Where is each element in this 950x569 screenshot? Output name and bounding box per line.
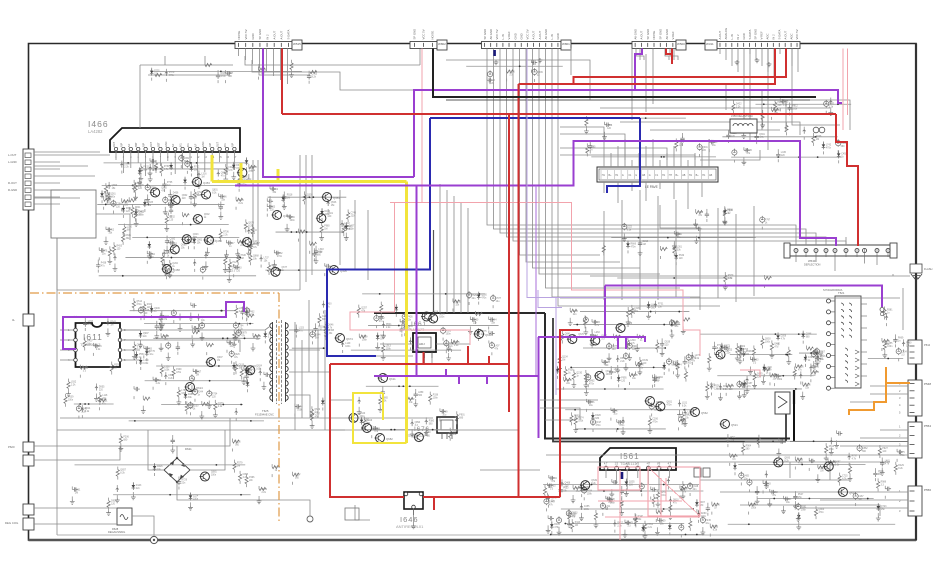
svg-text:P255: P255 — [154, 71, 160, 73]
transistor Q674 — [335, 334, 354, 343]
svg-text:L146: L146 — [290, 217, 296, 219]
svg-text:VCC 5V: VCC 5V — [795, 29, 799, 39]
svg-text:L261: L261 — [677, 246, 683, 248]
svg-text:P639: P639 — [68, 397, 74, 399]
svg-text:Q693: Q693 — [784, 457, 790, 459]
svg-text:L794: L794 — [238, 326, 244, 328]
wire red box top — [330, 363, 509, 365]
svg-text:Q561: Q561 — [656, 400, 663, 404]
svg-text:Q128: Q128 — [693, 486, 699, 488]
svg-text:P463: P463 — [710, 384, 716, 386]
svg-text:D955: D955 — [99, 387, 105, 389]
svg-text:R183: R183 — [446, 331, 452, 333]
wire red staircase to deflection — [836, 114, 858, 246]
svg-text:Q506: Q506 — [878, 471, 884, 473]
svg-text:Q257: Q257 — [361, 308, 367, 310]
svg-text:470n: 470n — [619, 425, 625, 427]
connector P548 (CRT) — [899, 380, 931, 416]
svg-text:VCC 5V: VCC 5V — [422, 29, 426, 39]
svg-text:Q692: Q692 — [248, 168, 254, 170]
svg-text:L153: L153 — [88, 321, 94, 323]
svg-text:100k: 100k — [578, 421, 584, 423]
svg-text:D614: D614 — [85, 408, 91, 410]
svg-text:P237: P237 — [777, 376, 783, 378]
node east-west driver cluster — [556, 301, 701, 396]
svg-text:A-OUT: A-OUT — [538, 31, 542, 40]
svg-text:R-OUT: R-OUT — [8, 181, 17, 185]
svg-text:1M: 1M — [110, 324, 113, 326]
svg-text:Q809: Q809 — [537, 72, 543, 74]
connector P401 audio out — [8, 149, 34, 210]
svg-text:Q681: Q681 — [373, 427, 380, 431]
svg-text:R769: R769 — [164, 166, 170, 168]
svg-text:C206: C206 — [509, 72, 515, 74]
svg-text:R793: R793 — [743, 349, 749, 351]
svg-text:W540: W540 — [808, 259, 816, 263]
svg-text:C167: C167 — [858, 496, 864, 498]
svg-text:L533: L533 — [766, 484, 772, 486]
svg-text:Q482: Q482 — [589, 381, 595, 383]
svg-text:AB: AB — [709, 174, 713, 177]
svg-text:1M: 1M — [194, 197, 197, 199]
svg-text:Q635: Q635 — [161, 188, 167, 190]
svg-text:100n: 100n — [211, 475, 217, 477]
svg-text:SP GND: SP GND — [646, 29, 650, 40]
svg-text:AB: AB — [642, 174, 646, 177]
svg-text:Q882: Q882 — [277, 253, 283, 255]
wire purple I611 net — [63, 302, 244, 349]
svg-text:R734: R734 — [212, 394, 218, 396]
svg-text:A-OUT: A-OUT — [272, 31, 276, 40]
svg-text:Q903: Q903 — [765, 339, 771, 341]
node video driver parts — [565, 399, 697, 435]
svg-text:C294: C294 — [116, 204, 122, 206]
svg-text:R455: R455 — [117, 245, 123, 247]
svg-text:Q610: Q610 — [606, 371, 612, 373]
svg-text:C437: C437 — [349, 226, 355, 228]
svg-text:Q520: Q520 — [481, 295, 487, 297]
svg-text:C862: C862 — [862, 448, 868, 450]
svg-text:Q689: Q689 — [627, 323, 633, 325]
svg-text:Q246: Q246 — [154, 308, 160, 310]
svg-text:L174: L174 — [297, 407, 303, 409]
svg-text:I466: I466 — [88, 119, 109, 129]
svg-text:D159: D159 — [665, 341, 671, 343]
connector W515 (audio/video in) — [235, 29, 302, 50]
svg-text:FS1394AE CNC: FS1394AE CNC — [255, 413, 274, 417]
svg-text:470n: 470n — [666, 404, 672, 406]
svg-text:Q675: Q675 — [144, 310, 150, 312]
svg-text:P274: P274 — [578, 418, 584, 420]
svg-text:L445: L445 — [781, 152, 787, 154]
svg-text:Q602: Q602 — [204, 214, 210, 216]
svg-text:C752: C752 — [109, 230, 115, 232]
svg-text:Q660: Q660 — [425, 432, 431, 434]
node left edge parts — [64, 316, 121, 419]
op-amp U I466 LA4282 — [110, 128, 240, 159]
svg-text:D638: D638 — [164, 336, 170, 338]
svg-text:Q457: Q457 — [253, 241, 260, 245]
svg-text:Q601: Q601 — [212, 190, 218, 192]
wire purple long top bus — [413, 90, 842, 103]
svg-text:ANTIREGUL01: ANTIREGUL01 — [396, 524, 424, 529]
svg-text:100k: 100k — [751, 508, 757, 510]
connector P624 degauss coil — [5, 504, 34, 530]
svg-text:100k: 100k — [765, 342, 771, 344]
svg-text:Q473: Q473 — [218, 403, 224, 405]
wire red stub I646 — [433, 497, 435, 510]
wire yellow sound supply vertical from I466 — [211, 155, 214, 182]
svg-text:IN 2: IN 2 — [265, 34, 269, 40]
wire lavender Q667 drop — [555, 298, 557, 395]
svg-text:C757: C757 — [315, 414, 321, 416]
svg-text:L840: L840 — [630, 340, 636, 342]
wire purple east stubs — [618, 337, 626, 349]
svg-text:D621: D621 — [185, 447, 192, 451]
svg-text:470n: 470n — [481, 298, 487, 300]
svg-text:L287: L287 — [613, 411, 619, 413]
svg-text:Q688: Q688 — [181, 244, 187, 246]
svg-text:Q451: Q451 — [333, 196, 340, 200]
svg-text:R936: R936 — [813, 367, 819, 369]
bridge rectifier D621 — [164, 447, 192, 483]
wire red W311 drop A — [574, 49, 787, 85]
svg-text:P647: P647 — [798, 494, 804, 496]
svg-text:G: G — [649, 174, 651, 177]
svg-text:RIP: RIP — [143, 143, 146, 147]
svg-text:100k: 100k — [584, 509, 590, 511]
svg-text:L316: L316 — [201, 173, 207, 175]
svg-text:L726: L726 — [239, 200, 245, 202]
svg-text:1M: 1M — [643, 244, 646, 246]
svg-text:C431: C431 — [841, 143, 847, 145]
connector 4L (left border) — [12, 314, 34, 326]
svg-text:P338: P338 — [433, 395, 439, 397]
svg-text:100n: 100n — [606, 374, 612, 376]
svg-text:Q432: Q432 — [453, 431, 459, 433]
chassis ground lug 2 — [307, 516, 313, 522]
svg-text:100n: 100n — [681, 423, 687, 425]
svg-text:P980: P980 — [324, 226, 330, 228]
svg-text:100n: 100n — [446, 334, 452, 336]
svg-text:Q649: Q649 — [314, 409, 320, 411]
svg-text:L-GND: L-GND — [8, 160, 17, 164]
svg-text:P923: P923 — [270, 207, 276, 209]
svg-text:L222: L222 — [627, 227, 633, 229]
svg-text:P732: P732 — [194, 167, 200, 169]
svg-text:P998: P998 — [778, 102, 784, 104]
svg-text:SP GND: SP GND — [658, 29, 662, 40]
svg-text:AGC: AGC — [789, 33, 793, 39]
svg-text:P268: P268 — [816, 136, 822, 138]
svg-text:DEGAUSSING: DEGAUSSING — [108, 530, 125, 534]
svg-text:Q562: Q562 — [701, 411, 708, 415]
svg-text:T625: T625 — [262, 409, 269, 413]
svg-text:D689: D689 — [742, 384, 748, 386]
svg-text:DEG COIL: DEG COIL — [5, 521, 19, 525]
svg-text:GND: GND — [742, 33, 746, 39]
svg-text:470n: 470n — [221, 76, 227, 78]
wire red main horizontal — [282, 113, 836, 115]
svg-text:R904: R904 — [746, 445, 752, 447]
transistor Q561 — [645, 397, 664, 406]
svg-text:A-OUT: A-OUT — [640, 31, 644, 40]
svg-text:LA4282: LA4282 — [88, 129, 103, 134]
svg-text:AV GND: AV GND — [665, 29, 669, 40]
wire yellow stub 2 — [240, 163, 243, 182]
svg-text:Q522: Q522 — [849, 491, 856, 495]
svg-text:Q623: Q623 — [727, 350, 733, 352]
svg-text:VCC 5V: VCC 5V — [526, 29, 530, 39]
svg-text:L326: L326 — [164, 367, 170, 369]
transformer T625 chopper — [255, 320, 288, 417]
svg-text:GND: GND — [165, 141, 168, 147]
svg-text:470n: 470n — [176, 372, 182, 374]
posistor R628 degauss — [108, 508, 132, 534]
svg-text:C577: C577 — [496, 298, 502, 300]
svg-text:L913: L913 — [386, 345, 392, 347]
svg-text:Q651: Q651 — [666, 401, 672, 403]
svg-text:Q662: Q662 — [182, 195, 188, 197]
svg-text:D770: D770 — [149, 351, 155, 353]
svg-text:D137: D137 — [295, 475, 301, 477]
svg-text:D980: D980 — [774, 110, 780, 112]
transistor Q611 — [378, 374, 397, 383]
wire black deflection heavy — [793, 390, 795, 404]
svg-text:Q620: Q620 — [360, 413, 366, 415]
isolation boundary (dash-dot vertical) — [278, 293, 280, 521]
svg-text:OUT: OUT — [150, 141, 153, 147]
svg-text:R548: R548 — [746, 351, 752, 353]
node audio cluster B — [260, 186, 357, 276]
svg-text:D440: D440 — [774, 343, 780, 345]
svg-text:C861: C861 — [197, 239, 203, 241]
svg-text:D513: D513 — [829, 446, 835, 448]
svg-text:Q456: Q456 — [215, 239, 222, 243]
svg-text:Q611: Q611 — [389, 377, 396, 381]
svg-text:100k: 100k — [587, 493, 593, 495]
svg-text:470n: 470n — [136, 304, 142, 306]
transistor Q667 — [474, 330, 493, 339]
svg-text:L817: L817 — [614, 369, 620, 371]
wire lavender branch — [538, 290, 562, 308]
svg-text:Q677: Q677 — [282, 267, 288, 269]
svg-text:D438: D438 — [124, 201, 130, 203]
svg-text:C370: C370 — [102, 250, 108, 252]
svg-text:P548: P548 — [924, 382, 931, 386]
svg-text:Q102: Q102 — [159, 324, 165, 326]
svg-text:Q466: Q466 — [565, 482, 571, 484]
svg-text:P409: P409 — [176, 369, 182, 371]
capacitor C558 pair — [813, 127, 825, 133]
inductor L556 (boxed) — [730, 114, 757, 133]
node yellow box area parts — [348, 385, 465, 441]
svg-text:NOISE: NOISE — [652, 31, 656, 40]
wire pink mid route — [390, 203, 700, 357]
chassis ground lug — [150, 536, 157, 543]
connector P554 — [899, 422, 931, 458]
connector P620 mains — [8, 442, 34, 466]
svg-text:P957: P957 — [820, 351, 826, 353]
wire orange EHT sense — [849, 367, 910, 415]
svg-text:P630: P630 — [241, 255, 247, 257]
svg-text:C740: C740 — [351, 212, 357, 214]
svg-text:Q678: Q678 — [248, 222, 254, 224]
svg-text:P544: P544 — [924, 343, 931, 347]
svg-text:C448: C448 — [549, 501, 555, 503]
svg-text:Q325: Q325 — [147, 202, 153, 204]
node middle sparse parts — [602, 206, 771, 290]
wire purple W500 drop — [635, 49, 642, 91]
svg-text:NF: NF — [172, 143, 175, 147]
svg-text:L375: L375 — [900, 452, 906, 454]
svg-text:1M: 1M — [196, 375, 199, 377]
IC I561 TDA6111 — [600, 448, 676, 470]
svg-text:L894: L894 — [687, 359, 693, 361]
svg-text:VS: VS — [636, 463, 640, 466]
svg-text:P556: P556 — [924, 488, 931, 492]
svg-text:D573: D573 — [813, 372, 819, 374]
svg-text:R855: R855 — [798, 366, 804, 368]
svg-text:470n: 470n — [360, 416, 366, 418]
svg-text:SP GND: SP GND — [754, 29, 758, 40]
node standby regulator cluster — [341, 291, 502, 360]
svg-text:1M: 1M — [75, 492, 78, 494]
svg-text:470n: 470n — [798, 463, 804, 465]
svg-text:L-OUT: L-OUT — [8, 153, 17, 157]
svg-text:P690: P690 — [727, 210, 733, 212]
svg-text:FLASH: FLASH — [924, 267, 932, 271]
svg-text:P927: P927 — [882, 448, 888, 450]
svg-text:HT: HT — [669, 174, 673, 177]
transistor Q453 — [192, 178, 211, 187]
svg-text:1M: 1M — [746, 354, 749, 356]
svg-text:D320: D320 — [818, 359, 824, 361]
svg-text:Q150: Q150 — [239, 364, 245, 366]
svg-text:P572: P572 — [729, 386, 735, 388]
svg-text:D415: D415 — [455, 301, 461, 303]
svg-text:R429: R429 — [898, 465, 904, 467]
svg-text:L210: L210 — [127, 227, 133, 229]
svg-text:P653: P653 — [563, 488, 569, 490]
svg-text:P801: P801 — [786, 499, 792, 501]
svg-text:S-DATA: S-DATA — [777, 30, 781, 40]
svg-text:Q523: Q523 — [572, 513, 578, 515]
node north-right parts — [722, 98, 851, 165]
svg-text:Q670: Q670 — [578, 334, 584, 336]
wire red vertical second — [508, 114, 510, 412]
svg-text:L999: L999 — [184, 158, 190, 160]
svg-text:R415: R415 — [550, 486, 556, 488]
svg-text:C355: C355 — [783, 101, 789, 103]
svg-text:R305: R305 — [454, 342, 460, 344]
svg-text:OUT: OUT — [113, 141, 116, 147]
svg-text:Q682: Q682 — [386, 437, 393, 441]
svg-text:R437: R437 — [87, 341, 93, 343]
svg-text:L789: L789 — [442, 411, 448, 413]
svg-text:D972: D972 — [685, 415, 691, 417]
svg-text:P206: P206 — [123, 436, 129, 438]
svg-text:P869: P869 — [898, 337, 904, 339]
svg-text:L915: L915 — [106, 200, 112, 202]
svg-text:C152: C152 — [273, 189, 279, 191]
svg-text:P330: P330 — [473, 320, 479, 322]
svg-text:A-OUT: A-OUT — [532, 31, 536, 40]
svg-text:P379: P379 — [169, 72, 175, 74]
svg-text:Q514: Q514 — [136, 301, 142, 303]
svg-text:AV GND: AV GND — [489, 29, 493, 40]
svg-text:Q624: Q624 — [256, 365, 262, 367]
svg-text:Q261: Q261 — [110, 193, 116, 195]
svg-text:R381: R381 — [887, 309, 893, 311]
connector W802 — [410, 29, 447, 50]
wire purple I661 row — [374, 369, 539, 384]
svg-text:NOISE: NOISE — [431, 31, 435, 40]
svg-text:1M: 1M — [287, 198, 290, 200]
svg-text:Q997: Q997 — [143, 333, 149, 335]
svg-text:100n: 100n — [68, 400, 74, 402]
svg-text:R812: R812 — [792, 105, 798, 107]
spark gap FLASH-OVER — [910, 264, 932, 279]
transistor Q624 — [185, 383, 204, 392]
svg-text:P311: P311 — [730, 437, 736, 439]
svg-text:Q657: Q657 — [120, 470, 126, 472]
svg-text:C529: C529 — [660, 520, 666, 522]
svg-text:C385: C385 — [808, 357, 814, 359]
svg-text:R495: R495 — [329, 330, 335, 332]
connector P544 — [908, 340, 931, 364]
transistor Q681 — [362, 424, 381, 433]
svg-text:P765: P765 — [167, 182, 173, 184]
svg-text:470n: 470n — [631, 246, 637, 248]
svg-text:L-IN: L-IN — [501, 34, 505, 39]
svg-text:AV GND: AV GND — [633, 29, 637, 40]
svg-text:D349: D349 — [194, 194, 200, 196]
svg-text:Q649: Q649 — [591, 480, 597, 482]
wire red stubs I661 — [424, 346, 490, 364]
svg-text:100n: 100n — [610, 503, 616, 505]
svg-text:C135: C135 — [576, 488, 582, 490]
svg-text:D934: D934 — [111, 501, 117, 503]
svg-text:C713: C713 — [312, 74, 318, 76]
svg-text:470n: 470n — [829, 449, 835, 451]
svg-text:P409: P409 — [407, 326, 413, 328]
svg-text:Q182: Q182 — [170, 239, 176, 241]
svg-text:100n: 100n — [701, 516, 707, 518]
svg-text:P438: P438 — [101, 263, 107, 265]
svg-text:I661: I661 — [411, 321, 427, 328]
connector W801 (deflection bus) — [482, 29, 572, 50]
svg-text:C455: C455 — [584, 506, 590, 508]
isolation boundary (dash-dot horizontal) — [30, 292, 279, 294]
svg-text:L405: L405 — [744, 476, 750, 478]
svg-text:P963: P963 — [236, 267, 242, 269]
svg-text:470n: 470n — [819, 512, 825, 514]
transistor Q458 — [162, 265, 181, 274]
svg-text:Q643: Q643 — [193, 234, 199, 236]
svg-text:P443: P443 — [575, 522, 581, 524]
svg-text:R541: R541 — [386, 324, 392, 326]
svg-text:C951: C951 — [102, 400, 108, 402]
IC I646 ANTIREGUL — [404, 492, 423, 515]
svg-text:R151: R151 — [245, 310, 251, 312]
wire red W515 drop — [281, 49, 283, 115]
svg-text:Q458: Q458 — [173, 268, 180, 272]
svg-text:C715: C715 — [842, 476, 848, 478]
svg-text:470n: 470n — [554, 527, 560, 529]
svg-text:D892: D892 — [829, 104, 835, 106]
svg-text:R340: R340 — [147, 304, 153, 306]
